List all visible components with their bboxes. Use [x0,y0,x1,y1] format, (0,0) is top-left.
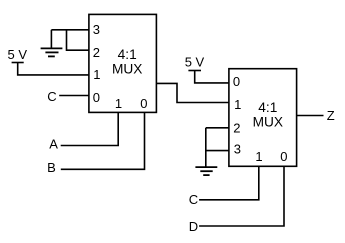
power 5V right bar [188,70,201,72]
ground G1 stem [50,30,52,49]
ground G2 [195,166,217,168]
svg-text:5 V: 5 V [8,47,28,62]
svg-text:B: B [47,160,56,175]
svg-text:C: C [47,89,56,104]
wire B to U1 select 0 [61,112,145,169]
svg-text:3: 3 [93,22,100,37]
wire C to U2 select 1 [199,166,259,200]
svg-text:A: A [49,136,58,151]
svg-text:MUX: MUX [253,114,283,129]
svg-text:MUX: MUX [112,62,142,77]
svg-text:2: 2 [93,45,100,60]
svg-text:1: 1 [115,96,122,111]
wire D to U2 select 0 [199,166,284,226]
wire U1 pin3 to ground node [51,29,89,31]
wire U2 pin2 to ground node [206,127,229,129]
wire 5V to U2 pin0 [195,71,229,83]
svg-text:4:1: 4:1 [118,47,137,62]
svg-text:C: C [189,192,198,207]
svg-text:0: 0 [93,90,100,105]
svg-text:D: D [189,219,198,234]
mux U2 box [229,69,297,167]
wire U1 pin2 tee from pin3 wire [67,30,89,50]
wire U1 output to U2 pin1 [156,83,229,102]
wire Z output [297,115,324,117]
svg-text:0: 0 [140,96,147,111]
ground G1 [41,47,63,49]
svg-text:1: 1 [93,67,100,82]
svg-text:5 V: 5 V [185,55,205,70]
mux U1 box [89,14,156,112]
svg-text:0: 0 [233,74,240,89]
wire U2 pin3 tee [206,150,229,152]
wire 5V to U1 pin1 [18,63,89,75]
svg-text:3: 3 [234,142,241,157]
svg-text:2: 2 [233,121,240,136]
svg-text:1: 1 [234,97,241,112]
wire C to U1 pin0 [59,95,89,97]
svg-text:1: 1 [255,149,262,164]
ground G2 stem [205,128,207,167]
svg-text:Z: Z [327,108,335,123]
svg-text:4:1: 4:1 [258,100,277,115]
power 5V left bar [12,62,24,64]
svg-text:0: 0 [280,149,287,164]
wire A to U1 select 1 [61,112,118,145]
